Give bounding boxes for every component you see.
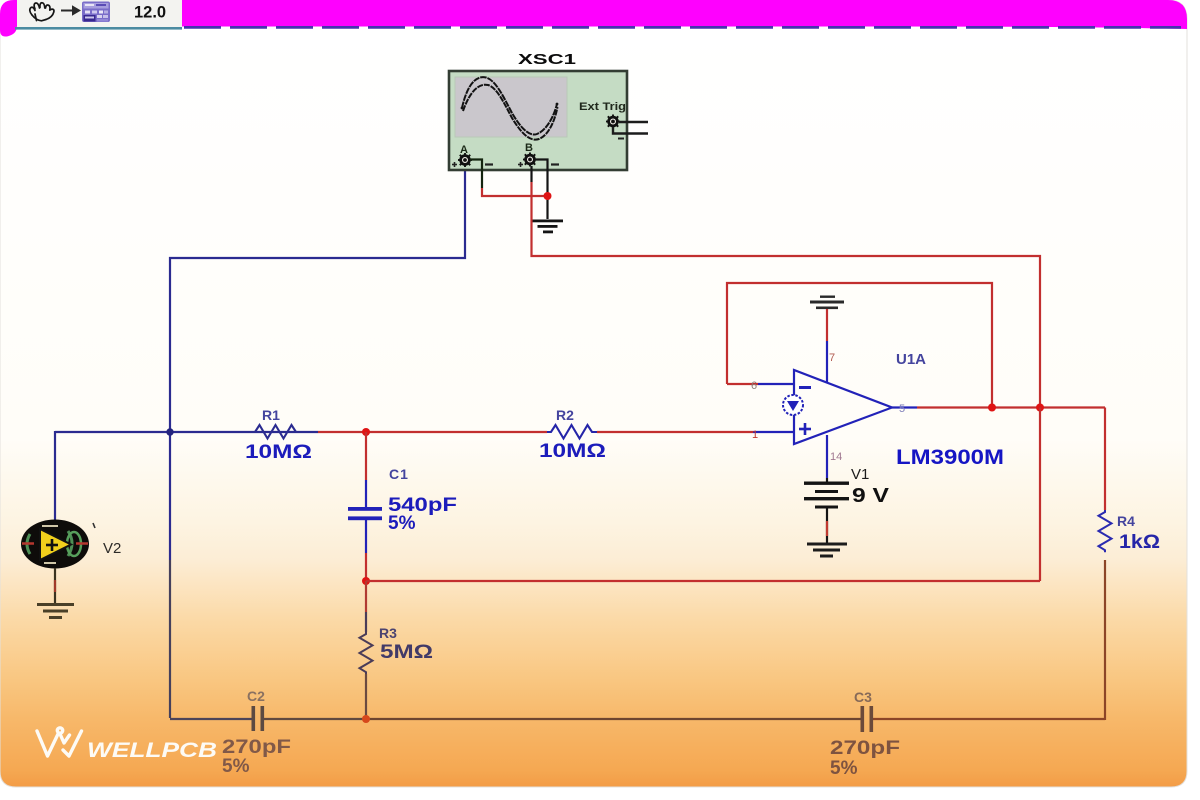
svg-text:1: 1 [752, 429, 758, 441]
wire main horizontal red segment R1-R2 [318, 431, 547, 433]
wire feedback right vertical [1039, 408, 1041, 582]
svg-text:5%: 5% [388, 513, 416, 534]
svg-text:U1A: U1A [896, 351, 926, 368]
svg-text:B: B [525, 142, 533, 154]
svg-text:R4: R4 [1117, 513, 1135, 529]
hand pan icon [30, 3, 54, 21]
wire feedback lower red horizontal [366, 580, 1040, 582]
svg-text:C2: C2 [247, 688, 265, 704]
svg-text:Ext Trig: Ext Trig [579, 101, 626, 113]
wire ground to op-amp pin 7 [826, 309, 828, 341]
node junction at left rail [166, 428, 173, 435]
capacitor C3 [861, 706, 874, 732]
resistor R2 [547, 425, 597, 439]
ground V2 [37, 603, 74, 619]
svg-text:12.0: 12.0 [134, 4, 166, 22]
svg-text:R3: R3 [379, 625, 397, 641]
svg-text:270pF: 270pF [222, 737, 291, 758]
svg-text:5MΩ: 5MΩ [380, 642, 433, 663]
navy dashed band bottom edge [184, 26, 1181, 29]
pin Ext Trig [606, 115, 648, 139]
svg-text:V1: V1 [851, 466, 869, 483]
wire non-inverting pin stub [753, 431, 794, 433]
op-amp feedback loop top [727, 283, 992, 408]
wire inverting input [727, 383, 758, 385]
svg-text:XSC1: XSC1 [518, 51, 576, 68]
resistor R4 [1104, 408, 1106, 511]
wire V2 riser [54, 431, 56, 521]
resistor R1 [251, 425, 301, 439]
node junction C1 top [362, 428, 370, 436]
wire V2 to ground [54, 568, 56, 604]
node junction scope ground [544, 192, 552, 200]
svg-text:WELLPCB: WELLPCB [87, 739, 217, 762]
svg-text:C1: C1 [389, 466, 409, 482]
op-amp U1A [783, 370, 892, 444]
wire main horizontal left navy segment [55, 431, 318, 433]
oscilloscope XSC1 [449, 71, 627, 170]
svg-text:A: A [460, 144, 468, 156]
wire output [892, 406, 917, 408]
node junction C1 bottom [362, 577, 370, 585]
ground above op-amp [810, 296, 844, 310]
svg-text:5: 5 [899, 403, 905, 415]
wire scope A to left rail (navy) [170, 170, 465, 560]
wire battery to ground [826, 508, 828, 543]
svg-text:1kΩ: 1kΩ [1119, 532, 1160, 553]
svg-text:7: 7 [829, 352, 835, 364]
ground scope [532, 220, 563, 234]
svg-text:5%: 5% [830, 758, 858, 779]
wire pin 14 [826, 435, 828, 478]
node junction output left [988, 404, 996, 412]
magenta top band [0, 0, 1187, 37]
resistor R3 [360, 581, 373, 718]
capacitor C2 [252, 706, 265, 731]
capacitor C1 [348, 432, 382, 581]
arrow icon [61, 7, 79, 14]
svg-text:6: 6 [751, 380, 757, 392]
wire A stub to red link [470, 160, 482, 189]
teal toolbar underline [15, 27, 182, 30]
svg-text:9 V: 9 V [852, 485, 890, 507]
svg-text:R2: R2 [556, 407, 574, 423]
node junction output right [1036, 404, 1044, 412]
svg-text:10MΩ: 10MΩ [539, 441, 606, 462]
ground below battery [807, 543, 847, 558]
calculator icon [82, 2, 110, 23]
svg-text:5%: 5% [222, 756, 250, 777]
wire scope B down (red) [530, 166, 532, 182]
svg-text:14: 14 [830, 451, 842, 463]
battery V1 [804, 482, 849, 509]
svg-text:C3: C3 [854, 689, 872, 705]
toolbar strip [17, 0, 182, 27]
wire B stub down to scope ground [535, 160, 548, 220]
svg-text:270pF: 270pF [830, 738, 900, 759]
svg-text:LM3900M: LM3900M [896, 446, 1004, 469]
source V2 [21, 520, 89, 569]
node junction R3 bottom [362, 715, 370, 723]
watermark W icon [37, 728, 82, 756]
svg-text:10MΩ: 10MΩ [245, 442, 312, 463]
wire R2 to op-amp red [597, 431, 753, 433]
svg-text:V2: V2 [103, 540, 121, 557]
wire bottom rail [170, 718, 252, 720]
wire left rail lower part [169, 560, 171, 718]
svg-text:R1: R1 [262, 407, 280, 423]
